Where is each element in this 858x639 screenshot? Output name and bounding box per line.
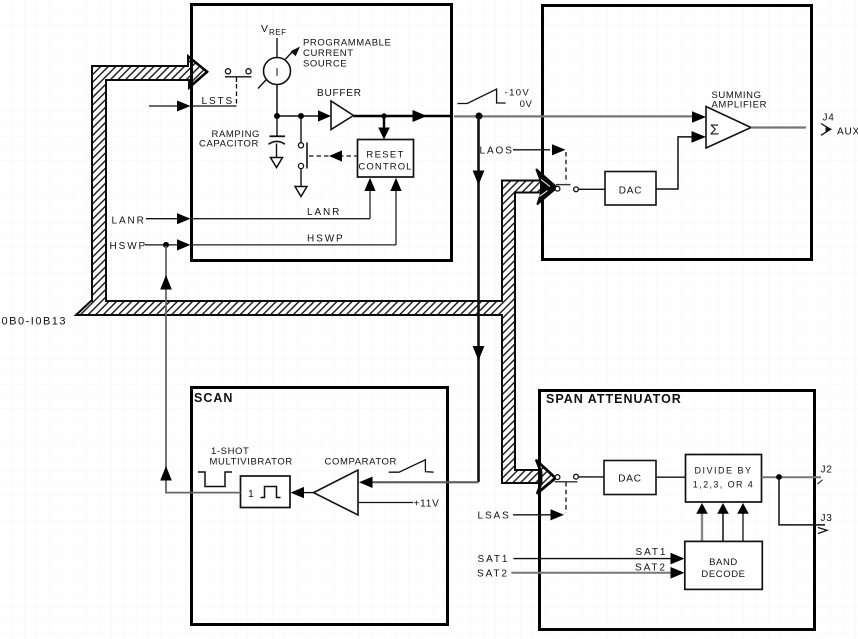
signal SAT2 [477, 563, 685, 580]
switch S1 (LSTS gate) contacts [225, 69, 252, 104]
box: SPAN ATTENUATOR (bottom-right) [540, 391, 815, 630]
band decode U9 [685, 541, 763, 589]
svg-text:+11V: +11V [414, 499, 440, 510]
svg-text:J2: J2 [821, 465, 833, 476]
one-shot input arrow [291, 487, 305, 498]
junction dot C [381, 113, 386, 118]
wire ramp node [277, 115, 320, 117]
signal HSWP input [110, 239, 191, 252]
wire ramp to summing amplifier [454, 115, 693, 117]
svg-text:DIVIDE BY: DIVIDE BY [694, 466, 752, 476]
signal LSTS input [149, 96, 237, 112]
svg-text:1,2,3, OR 4: 1,2,3, OR 4 [693, 480, 754, 490]
wire to J3 [779, 477, 825, 525]
bus arrowhead at LSTS switch (top-left) [188, 57, 207, 88]
junction dot A [274, 113, 280, 119]
wire buffer output [354, 115, 453, 118]
summing amplifier input arrow 2 [692, 131, 707, 143]
signal SAT1 [478, 547, 685, 565]
svg-text:LANR: LANR [307, 207, 341, 218]
connector J4 [821, 113, 858, 138]
svg-text:Σ: Σ [710, 122, 719, 139]
svg-text:CAPACITOR: CAPACITOR [199, 139, 259, 150]
wires band decode to divider [696, 503, 749, 541]
box: summing amplifier (top-right) [543, 6, 812, 260]
reset switch S2 [298, 116, 307, 186]
svg-text:SAT1: SAT1 [636, 547, 668, 558]
programmable current source I1 [264, 58, 291, 85]
wire one-shot output to HSWP [160, 246, 240, 494]
label PROGRAMMABLE CURRENT SOURCE [303, 38, 392, 70]
svg-text:V: V [261, 23, 268, 35]
wire divider output [762, 476, 822, 478]
bus arrow into span box (outline) [537, 461, 556, 494]
latch contacts after bus arrow (top) [555, 185, 605, 192]
wire VREF to current source [276, 38, 278, 57]
wire HSWP [191, 178, 402, 245]
svg-text:DAC: DAC [619, 186, 643, 197]
svg-text:LANR: LANR [112, 216, 146, 227]
bus I0B0-I0B13 hatched channel [76, 56, 541, 483]
bus arrow into summing box (solid) [537, 170, 558, 205]
svg-text:SOURCE: SOURCE [303, 59, 347, 70]
box: SCAN (bottom-left) [192, 388, 448, 625]
wire LANR [191, 178, 376, 219]
waveform sawtooth [389, 460, 434, 472]
wire current source to ramp node [276, 85, 278, 118]
svg-text:MULTIVIBRATOR: MULTIVIBRATOR [210, 457, 293, 468]
svg-text:SCAN: SCAN [194, 391, 233, 405]
svg-text:PROGRAMMABLE: PROGRAMMABLE [303, 38, 392, 49]
wire into comparator [373, 481, 479, 483]
wire DAC to divider [656, 476, 686, 478]
waveform pulse [198, 472, 232, 487]
wire to reset control [383, 116, 385, 130]
svg-text:AMPLIFIER: AMPLIFIER [712, 100, 768, 111]
svg-text:CONTROL: CONTROL [358, 162, 412, 173]
signal LANR input [112, 213, 191, 226]
summing amplifier U3 [706, 107, 751, 149]
svg-text:AUX: AUX [837, 127, 858, 138]
latch contacts after bus arrow (bottom) [555, 474, 605, 481]
svg-text:SAT1: SAT1 [478, 554, 510, 565]
comparator input arrow [359, 477, 373, 488]
svg-text:CURRENT: CURRENT [303, 48, 354, 59]
junction dot E [776, 474, 782, 480]
buffer amplifier U1 [331, 101, 354, 130]
buffer amplifier input arrow [318, 110, 331, 121]
svg-text:HSWP: HSWP [110, 241, 148, 252]
svg-text:HSWP: HSWP [307, 234, 345, 245]
signal LAOS [480, 144, 567, 183]
svg-text:I0B0-I0B13: I0B0-I0B13 [0, 316, 67, 328]
box: ramp generator (top-left) [192, 5, 452, 261]
one-shot multivibrator U5 [241, 476, 291, 508]
svg-text:DAC: DAC [618, 474, 642, 485]
svg-text:SAT2: SAT2 [477, 569, 509, 580]
label SUMMING AMPLIFIER [712, 90, 768, 111]
junction dot D [476, 113, 483, 120]
+11V input wire [358, 499, 440, 510]
programmable adjust arrow [258, 47, 300, 89]
svg-text:DECODE: DECODE [701, 569, 745, 580]
DAC U4 [605, 172, 656, 206]
wire DAC to summing amplifier [656, 137, 692, 189]
svg-text:SPAN ATTENUATOR: SPAN ATTENUATOR [546, 392, 682, 406]
svg-text:0V: 0V [520, 99, 533, 110]
arrow on output wire [413, 110, 428, 122]
svg-text:1-SHOT: 1-SHOT [211, 446, 249, 457]
waveform ramp -10V/0V [458, 88, 533, 111]
svg-text:LAOS: LAOS [480, 146, 514, 157]
svg-text:LSTS: LSTS [202, 96, 235, 107]
svg-text:J4: J4 [823, 113, 835, 124]
comparator U6 [314, 470, 359, 515]
label 1-SHOT MULTIVIBRATOR [210, 446, 293, 468]
svg-text:1: 1 [248, 488, 254, 500]
svg-text:BUFFER: BUFFER [317, 88, 362, 99]
svg-text:BAND: BAND [709, 557, 738, 568]
svg-text:COMPARATOR: COMPARATOR [325, 457, 398, 468]
svg-text:J3: J3 [821, 513, 833, 524]
ground under capacitor [271, 158, 283, 168]
svg-text:-10V: -10V [505, 88, 531, 99]
connector J3 [818, 513, 833, 534]
svg-text:LSAS: LSAS [478, 511, 511, 522]
ramping capacitor C1 [269, 116, 286, 157]
svg-text:SAT2: SAT2 [635, 563, 667, 574]
signal LSAS [478, 482, 567, 522]
dashed control wire reset to switch [309, 155, 357, 157]
svg-text:I: I [275, 67, 279, 79]
wire summing output [751, 126, 806, 128]
DAC U7 [604, 461, 656, 495]
junction dot B [298, 113, 304, 119]
divider U8 DIVIDE BY 1,2,3, OR 4 [686, 455, 762, 503]
connector J2 [818, 465, 833, 485]
svg-text:RESET: RESET [366, 150, 404, 161]
summing amplifier input arrow 1 [692, 111, 706, 123]
node VREF label [261, 23, 287, 37]
svg-text:REF: REF [269, 28, 287, 37]
ground under reset switch [295, 187, 307, 197]
wire ramp down to comparator [473, 116, 485, 482]
wire comparator to one-shot [304, 492, 314, 494]
label RAMPING CAPACITOR [199, 129, 260, 150]
reset control U2 [358, 140, 414, 178]
